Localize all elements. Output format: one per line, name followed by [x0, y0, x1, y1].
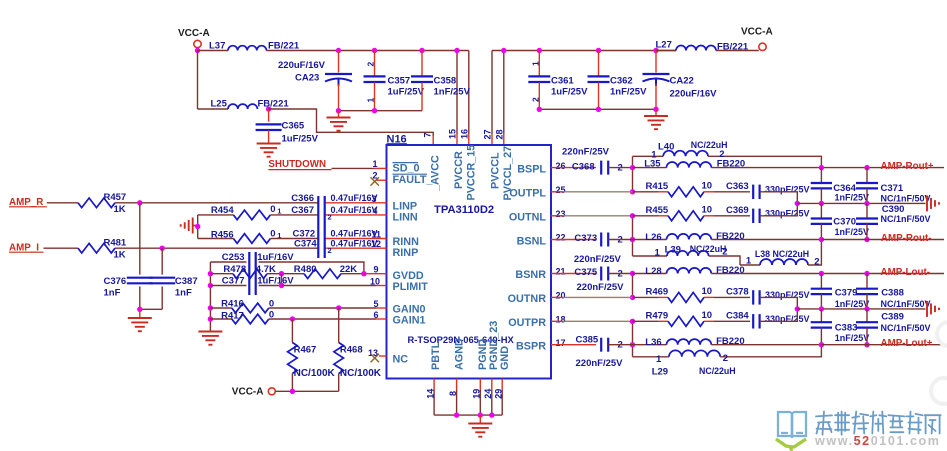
wire ground bus x210 — [209, 262, 211, 331]
pin number 8 — [448, 391, 458, 396]
capacitor C362 1nF/25V — [588, 51, 648, 110]
svg-text:C388: C388 — [881, 288, 904, 299]
wire VCC-A to R467/R468 — [275, 389, 338, 394]
IC footprint R-TSOP29N-065-640-HX — [408, 334, 515, 345]
svg-text:L39: L39 — [665, 245, 681, 256]
net label AMP-Rout+ — [881, 161, 934, 172]
svg-text:R468: R468 — [340, 345, 363, 356]
svg-text:0.47uF/16V: 0.47uF/16V — [331, 205, 378, 215]
svg-text:C367: C367 — [291, 205, 314, 216]
wire AMP-Lout+ rail — [821, 344, 944, 346]
capacitor C377 1uF/16V — [210, 276, 294, 287]
svg-text:1uF/25V: 1uF/25V — [551, 87, 588, 98]
wire gnd riser R454/R456 — [195, 215, 200, 239]
svg-text:GND: GND — [499, 346, 511, 370]
svg-text:FB220: FB220 — [716, 336, 745, 347]
pin name PBTL — [430, 341, 442, 370]
node mid C371 — [864, 201, 869, 206]
svg-text:PVCCL: PVCCL — [490, 152, 502, 189]
svg-text:C368: C368 — [572, 162, 595, 173]
pin number 15 — [448, 129, 458, 139]
wire pin 17 stub — [551, 344, 596, 346]
svg-text:BSNL: BSNL — [517, 235, 547, 247]
wire PGND pin 19 — [479, 379, 481, 416]
svg-text:C375: C375 — [574, 267, 597, 278]
svg-text:1: 1 — [655, 247, 661, 258]
resistor R481 1K — [78, 237, 127, 260]
node ground join C376 — [137, 307, 142, 312]
pin name LINN — [393, 212, 418, 224]
wire R457 to LINP — [115, 202, 318, 204]
pin number 28 — [494, 129, 504, 139]
pin name LINP — [393, 201, 418, 213]
capacitor C368 220nF/25V — [562, 147, 623, 175]
node GVDD pin — [361, 271, 366, 276]
bus segment OUTPR/BSPR — [632, 321, 634, 357]
svg-text:CA23: CA23 — [295, 73, 319, 84]
svg-text:VCC-A: VCC-A — [741, 27, 773, 38]
pin name SD_0 — [393, 163, 420, 175]
svg-text:PBTL: PBTL — [430, 341, 442, 370]
pin number 11 — [371, 229, 381, 239]
svg-text:1nF/25V: 1nF/25V — [835, 299, 870, 309]
svg-text:BSPR: BSPR — [516, 340, 546, 352]
node bus GVDD row — [208, 271, 213, 276]
svg-text:C366: C366 — [291, 193, 314, 204]
pin 2 stub with no-connect X — [371, 177, 387, 185]
resistor R469 10 — [633, 286, 715, 302]
net label AMP-Lout+ — [881, 338, 933, 349]
pin number 23 — [556, 209, 566, 219]
pin name PVCCR_15 — [466, 145, 478, 201]
svg-text:C253: C253 — [222, 252, 245, 263]
pin number 18 — [556, 315, 566, 325]
svg-text:C377: C377 — [222, 276, 245, 287]
svg-text:OUTPR: OUTPR — [508, 317, 546, 329]
pin number 4 — [372, 206, 377, 216]
node bottom C357 — [372, 108, 377, 113]
svg-text:FB220: FB220 — [716, 265, 745, 276]
wire L26 out to rail — [711, 239, 821, 241]
wire PBTL pin 14 — [433, 379, 435, 416]
pin name AGND — [454, 338, 466, 370]
pin number 2 — [372, 170, 377, 180]
pin number 17 — [556, 338, 566, 348]
capacitor C379 1nF/25V — [811, 274, 870, 309]
svg-text:L28: L28 — [645, 266, 661, 277]
node bus row21 — [630, 271, 635, 276]
pin name RINP — [393, 247, 419, 259]
wire pin 22 stub — [551, 239, 596, 241]
svg-text:330pF/25V: 330pF/25V — [765, 290, 810, 300]
svg-text:2: 2 — [328, 246, 332, 255]
svg-text:220nF/25V: 220nF/25V — [576, 358, 624, 369]
IC name TPA3110D2 — [434, 204, 494, 216]
svg-text:C369: C369 — [726, 205, 749, 216]
pin name PVCCL — [490, 152, 502, 189]
pin name PGND — [477, 339, 489, 370]
node rail CA22 — [653, 48, 658, 53]
wire pin 18 stub — [551, 320, 633, 322]
node rail pin28 — [501, 48, 506, 53]
IC designator N16 — [387, 134, 408, 146]
svg-text:www.520101.com: www.520101.com — [814, 434, 941, 448]
svg-text:C384: C384 — [726, 311, 749, 322]
resistor R416 0 — [210, 298, 274, 313]
capacitor CA23 220uF/16V — [278, 51, 352, 111]
capacitor C390 NC/1nF/50V — [856, 203, 931, 239]
svg-text:NC/100K: NC/100K — [340, 368, 382, 379]
svg-text:OUTNL: OUTNL — [509, 212, 547, 224]
wire R481 to RINP — [115, 247, 318, 249]
svg-text:1: 1 — [277, 207, 281, 216]
svg-text:OUTPL: OUTPL — [509, 188, 546, 200]
wire PLIMIT to pin 10 — [282, 285, 387, 287]
pin number 24 — [483, 389, 493, 399]
pin name PLIMIT — [393, 281, 429, 293]
net label AMP_I — [9, 242, 44, 253]
svg-text:R467: R467 — [294, 345, 317, 356]
inductor L35 FB220 — [633, 159, 746, 170]
wire C368 to bus — [608, 167, 632, 169]
resistor R456 0 — [198, 229, 282, 244]
inductor L29 NC/22uH — [633, 345, 822, 378]
pin number 26 — [556, 161, 566, 171]
svg-text:0: 0 — [270, 204, 275, 215]
node bus row22 — [630, 237, 635, 242]
svg-text:SHUTDOWN: SHUTDOWN — [268, 159, 326, 170]
pin name FAULT_ — [393, 174, 434, 186]
net label AMP-Rout- — [881, 233, 932, 244]
svg-text:22: 22 — [556, 233, 566, 243]
label C367 — [291, 205, 377, 222]
capacitor C384 330pF/25V — [726, 311, 810, 329]
wire pin 25 stub — [551, 191, 633, 193]
svg-text:17: 17 — [556, 338, 566, 348]
node A1 on VCC-A rail — [195, 48, 200, 53]
inductor L40 NC/22uH — [633, 140, 822, 168]
pin number 3 — [371, 194, 376, 204]
capacitor C375 220nF/25V — [574, 267, 624, 293]
power port VCC-A (top-left) — [178, 28, 210, 51]
ground under bus x210 — [198, 332, 222, 345]
wire L36 out to rail — [711, 344, 821, 346]
svg-text:28: 28 — [494, 129, 504, 139]
pin number 16 — [459, 129, 469, 139]
wire AMP-Rout+ rail — [821, 167, 944, 169]
svg-text:PLIMIT: PLIMIT — [393, 281, 429, 293]
wire C387 bottom join — [140, 308, 162, 310]
node bus row25 — [630, 189, 635, 194]
node mid join R — [795, 306, 800, 311]
svg-text:0.47uF/16V: 0.47uF/16V — [331, 193, 378, 203]
wire PLIMIT link — [279, 274, 284, 288]
capacitor C365 1uF/25V — [256, 109, 319, 145]
node gnd rail PGND_23 — [489, 412, 494, 417]
wire R456 to RINN cap — [270, 238, 318, 240]
svg-text:15: 15 — [448, 129, 458, 139]
pin name RINN — [393, 236, 420, 248]
svg-text:TPA3110D2: TPA3110D2 — [434, 204, 494, 216]
net label SHUTDOWN — [268, 159, 331, 170]
pin name OUTNR — [508, 293, 547, 305]
wire bottom rail left — [339, 110, 423, 112]
node rail pin15 — [454, 48, 459, 53]
svg-text:20: 20 — [556, 291, 566, 301]
wire R455 to C369 — [714, 215, 750, 217]
svg-text:220uF/16V: 220uF/16V — [278, 60, 326, 71]
capacitor C385 220nF/25V — [576, 335, 624, 370]
svg-text:1nF/25V: 1nF/25V — [835, 227, 870, 237]
net label AMP_R — [9, 197, 47, 208]
wire pin 26 stub — [551, 167, 596, 169]
wire to pin 16 — [468, 51, 470, 146]
svg-text:AMP-Lout-: AMP-Lout- — [881, 267, 931, 278]
node gnd rail AGND — [454, 412, 459, 417]
svg-text:R478: R478 — [223, 264, 246, 275]
wire AMP_R — [47, 202, 78, 204]
svg-text:C362: C362 — [610, 76, 633, 87]
pin number 13 — [368, 348, 378, 358]
svg-text:1: 1 — [366, 98, 376, 103]
wire GVDD to pin 9 — [364, 273, 387, 275]
capacitor C358 1nF/25V — [411, 51, 471, 111]
wire AGND pin 8 — [456, 379, 458, 416]
wire R454 to LINN cap — [270, 214, 318, 216]
pin 13 stub with no-connect X — [371, 354, 387, 362]
pin name PVCCL_27 — [502, 146, 514, 201]
svg-text:VCC-A: VCC-A — [232, 387, 264, 398]
node rail2 C389 — [864, 342, 869, 347]
inductor L26 FB220 — [633, 231, 745, 243]
svg-text:18: 18 — [556, 315, 566, 325]
svg-text:R416: R416 — [221, 298, 244, 309]
resistor R454 0 — [198, 204, 282, 220]
wire C373 to bus — [608, 239, 632, 241]
svg-text:10: 10 — [702, 180, 713, 191]
node AMP_R / C376 — [137, 200, 142, 205]
pin name _AVCC — [430, 155, 442, 192]
pin number 12 — [371, 239, 381, 249]
wire pin 20 stub — [551, 296, 633, 298]
power port VCC-A (top-right) — [741, 27, 773, 51]
wire GAIN0 to pin 5 — [269, 307, 387, 309]
wire PGND_23 pin 24 — [491, 379, 493, 416]
ground under right rail — [644, 109, 668, 129]
wire R469 to C378 — [714, 296, 750, 298]
svg-text:1nF: 1nF — [104, 288, 121, 299]
wire VCC-A right rail — [492, 50, 676, 52]
svg-text:C358: C358 — [434, 76, 457, 87]
svg-text:2: 2 — [723, 353, 728, 364]
resistor R457 1K — [78, 192, 126, 215]
svg-text:330pF/25V: 330pF/25V — [765, 185, 810, 195]
svg-text:27: 27 — [483, 129, 493, 139]
node rail C379 — [819, 271, 824, 276]
svg-text:C374: C374 — [294, 238, 317, 249]
svg-text:FB220: FB220 — [716, 231, 745, 242]
inductor L39 NC/22uH — [633, 244, 741, 265]
wire C385 to bus — [608, 344, 632, 346]
wire mid line R — [797, 308, 925, 310]
svg-text:0.47uF/16V: 0.47uF/16V — [331, 228, 378, 238]
pin name GVDD — [393, 270, 424, 282]
node rail C361 — [537, 48, 542, 53]
svg-text:R481: R481 — [104, 237, 127, 248]
pin number 20 — [556, 291, 566, 301]
node bus GAIN0 row — [208, 305, 213, 310]
wire bottom rail right — [539, 108, 656, 110]
svg-text:1nF: 1nF — [175, 288, 192, 299]
wire AVCC to pin 7 — [269, 109, 434, 145]
svg-text:VCC-A: VCC-A — [178, 28, 210, 39]
svg-text:_AVCC: _AVCC — [430, 155, 442, 192]
svg-text:C373: C373 — [574, 233, 597, 244]
node bottom CA23 — [336, 108, 341, 113]
svg-text:220nF/25V: 220nF/25V — [562, 147, 610, 158]
node bus row26 — [630, 165, 635, 170]
pin number 14 — [425, 389, 435, 399]
inductor L27 FB/221 — [656, 40, 759, 53]
node rail C388 — [864, 271, 869, 276]
svg-text:R479: R479 — [646, 311, 669, 322]
svg-text:330pF/25V: 330pF/25V — [765, 209, 810, 219]
svg-text:R417: R417 — [221, 310, 244, 321]
wire RINN cap to pin 11 — [325, 238, 387, 240]
wire C363 to mid node — [760, 192, 798, 204]
pin name NC — [393, 354, 409, 366]
svg-text:AMP-Rout-: AMP-Rout- — [881, 233, 932, 244]
svg-text:26: 26 — [556, 161, 566, 171]
svg-text:R469: R469 — [646, 287, 669, 298]
label C372 — [293, 228, 378, 239]
node rail2 C383 — [819, 342, 824, 347]
inductor L36 FB220 — [633, 336, 745, 348]
pin name BSNL — [517, 235, 547, 247]
svg-text:NC/22uH: NC/22uH — [699, 366, 736, 376]
capacitor C370 1nF/25V — [811, 203, 869, 239]
svg-text:L40: L40 — [658, 142, 674, 153]
svg-text:SD_0: SD_0 — [393, 163, 420, 175]
svg-text:FAULT_: FAULT_ — [393, 174, 434, 186]
pin number 27 — [483, 129, 493, 139]
svg-text:C376: C376 — [104, 276, 127, 287]
wire AMP-Rout- rail — [821, 239, 944, 241]
svg-text:2: 2 — [722, 247, 727, 258]
node rail C364 — [819, 165, 824, 170]
svg-text:1K: 1K — [114, 204, 126, 215]
node rail C362 — [596, 48, 601, 53]
svg-text:2: 2 — [814, 257, 819, 268]
svg-text:L29: L29 — [652, 367, 668, 378]
node bottom C361 — [537, 107, 542, 112]
capacitor C388 NC/1nF/50V — [856, 274, 931, 310]
svg-text:L38 NC/22uH: L38 NC/22uH — [755, 249, 809, 259]
svg-text:PVCCR_15: PVCCR_15 — [466, 145, 478, 201]
label C374 — [294, 238, 378, 255]
capacitor C357 1uF/25V — [364, 51, 425, 111]
svg-text:L25: L25 — [211, 99, 228, 110]
resistor R455 10 — [633, 204, 715, 220]
svg-text:NC/1nF/50V: NC/1nF/50V — [881, 299, 931, 309]
pin name OUTNL — [509, 212, 547, 224]
pin name OUTPR — [508, 317, 546, 329]
wire RINP cap to pin 12 — [325, 247, 387, 249]
svg-text:NC/1nF/50V: NC/1nF/50V — [881, 214, 931, 224]
svg-text:PVCCL_27: PVCCL_27 — [502, 146, 514, 201]
node bus GAIN1 row — [208, 316, 213, 321]
svg-text:AMP-Rout+: AMP-Rout+ — [881, 161, 934, 172]
wire pin 23 stub — [551, 215, 633, 217]
capacitor C371 NC/1nF/50V — [856, 168, 931, 204]
svg-text:2: 2 — [366, 62, 376, 67]
resistor R417 0 — [210, 310, 274, 324]
node GAIN1 R467 — [290, 316, 295, 321]
svg-text:GAIN1: GAIN1 — [393, 315, 426, 327]
node bus row20 — [630, 295, 635, 300]
inductor L38 NC/22uH — [740, 240, 821, 268]
svg-text:25: 25 — [556, 185, 566, 195]
svg-text:C387: C387 — [175, 276, 198, 287]
pin number 6 — [373, 310, 378, 320]
resistor R468 NC/100K — [334, 308, 382, 391]
pin number 7 — [422, 132, 432, 137]
node mid C388 — [864, 306, 869, 311]
wire to pin 15 — [456, 51, 458, 146]
node bus row18 — [630, 319, 635, 324]
svg-text:1uF/16V: 1uF/16V — [257, 252, 294, 263]
capacitor C364 1nF/25V — [811, 168, 869, 204]
svg-text:220uF/16V: 220uF/16V — [670, 89, 718, 100]
node rail2 C370 — [819, 237, 824, 242]
svg-text:RINP: RINP — [393, 247, 419, 259]
pin number 9 — [373, 265, 378, 275]
svg-text:R457: R457 — [104, 192, 127, 203]
node bus PLIMIT row — [208, 283, 213, 288]
wire C384 to mid node — [760, 309, 798, 321]
ground under IC — [468, 415, 492, 437]
node rail C358 — [419, 48, 424, 53]
pin name OUTPL — [509, 188, 546, 200]
svg-text:22K: 22K — [340, 264, 358, 275]
inductor L37 FB/221 — [198, 41, 300, 52]
pin number 29 — [493, 389, 503, 399]
pin number 1 — [372, 159, 377, 169]
svg-text:R480: R480 — [294, 264, 317, 275]
wire bottom gnd rail — [434, 414, 502, 416]
wire L35 out to rail — [711, 167, 821, 169]
wire AMP-Lout- rail — [821, 273, 944, 275]
svg-text:NC/1nF/50V: NC/1nF/50V — [881, 323, 931, 333]
svg-text:C361: C361 — [551, 76, 574, 87]
pin name GAIN0 — [393, 304, 426, 316]
pin number 22 — [556, 233, 566, 243]
ground right of mid R — [927, 301, 939, 317]
pin name BSNR — [515, 269, 546, 281]
svg-text:1: 1 — [531, 61, 541, 66]
pin name BSPL — [517, 163, 546, 175]
IC U-N16 TPA3110D2 body — [387, 145, 552, 379]
pin number 10 — [370, 277, 380, 287]
node GAIN0 R468 — [336, 305, 341, 310]
pin number 21 — [556, 267, 566, 277]
capacitor C376 1nF — [104, 203, 153, 309]
svg-text:23: 23 — [556, 209, 566, 219]
resistor R415 10 — [633, 180, 715, 196]
svg-text:1: 1 — [746, 256, 752, 267]
wire AMP_I — [44, 247, 79, 249]
wire LINP cap to pin 3 — [325, 202, 387, 204]
